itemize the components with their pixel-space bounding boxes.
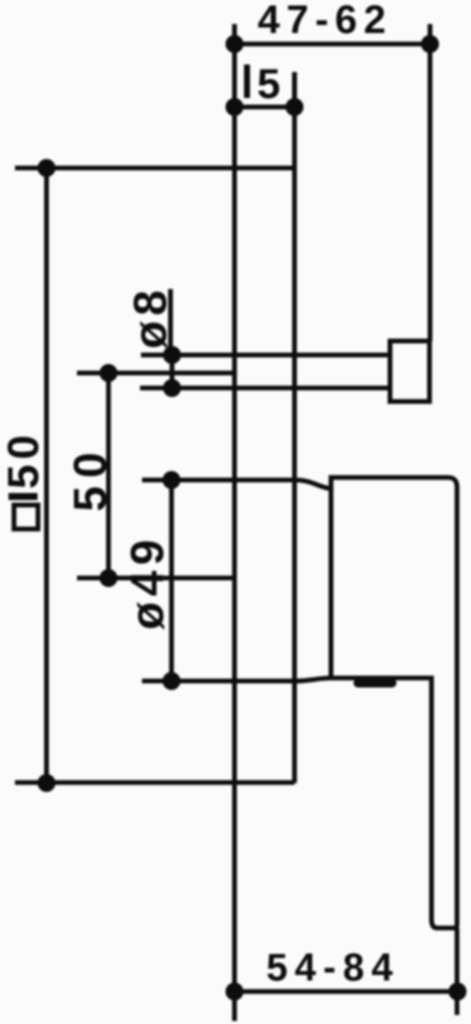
dimension line 15 (horizontal) [235, 105, 295, 110]
dia-49 bottom extension line with neck curve [142, 678, 331, 681]
extension line above right 15 dot [292, 72, 297, 107]
svg-text:50: 50 [0, 430, 48, 489]
lever right edge extension to 54-84 dim [455, 928, 460, 1015]
dimension line 54-84 (horizontal bottom) [235, 989, 458, 994]
spout block (nozzle) [390, 341, 430, 402]
svg-text:47-62: 47-62 [258, 0, 393, 42]
spout pipe bottom line [140, 386, 390, 391]
dot 47-62 right [421, 35, 439, 53]
dot 54-84 right [449, 983, 467, 1001]
plate bottom edge line (y=783) [15, 780, 295, 785]
wall face line (vertical, full height) [232, 24, 237, 1021]
dot 54-84 left [226, 983, 244, 1001]
plate top edge line (y=168) [15, 166, 295, 171]
dia-8 leader line [168, 289, 173, 355]
svg-text:50: 50 [64, 444, 116, 511]
svg-text:5: 5 [257, 60, 280, 107]
handle body outline (cap with lever) [331, 478, 457, 929]
plate front face line (vertical) [292, 72, 297, 783]
svg-text:ø8: ø8 [124, 285, 176, 349]
dot 50 top [100, 364, 118, 382]
label 15 [247, 60, 280, 107]
spout axis extension line (50 top) [77, 371, 235, 376]
dot dia8 bottom [163, 379, 181, 397]
diverter detail blob on body bottom [358, 679, 392, 688]
dot 50 bottom [100, 569, 118, 587]
dot 150 top [38, 159, 56, 177]
dimension line square-150 (vertical left) [44, 168, 49, 783]
extension line to spout tip (right, from 47-62 dim down to spout block) [428, 24, 433, 341]
dot 15 right [286, 98, 304, 116]
dimension line 50 (vertical) [106, 373, 111, 578]
dot 150 bottom [38, 774, 56, 792]
dot dia49 top [163, 471, 181, 489]
spout pipe top line [141, 353, 390, 358]
valve axis extension line (50 bottom) [77, 576, 235, 581]
label square-150 (rotated) [0, 430, 48, 496]
dot 15 left [226, 98, 244, 116]
dot dia8 top [163, 346, 181, 364]
svg-text:54-84: 54-84 [266, 947, 399, 990]
dimension line 47-62 (horizontal top) [235, 42, 431, 47]
svg-text:ø49: ø49 [121, 534, 173, 630]
dia-8 dimension connector between dots [170, 355, 175, 388]
square symbol of square-150 [14, 505, 38, 529]
dot dia49 bottom [163, 672, 181, 690]
dot 47-62 left [226, 35, 244, 53]
dia-49 dimension line (vertical) [169, 480, 174, 681]
dia-49 top extension line [142, 480, 331, 489]
